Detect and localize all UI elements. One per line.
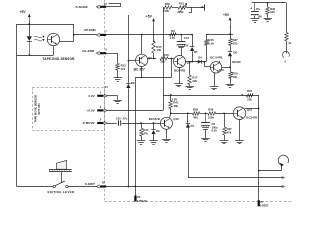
svg-text:16V: 16V: [257, 14, 262, 18]
ground R37b: [220, 141, 229, 144]
dashed box TAPE MOVE SENSOR: [33, 88, 105, 131]
svg-text:EDITING LEVER: EDITING LEVER: [48, 190, 75, 194]
label +5V (rail): [146, 15, 153, 19]
svg-text:TAPE-END-SENSOR.: TAPE-END-SENSOR.: [43, 57, 76, 61]
wire base BC327: [128, 60, 135, 62]
label S-EDIT: [85, 182, 95, 186]
capacitor C36: [251, 12, 262, 19]
resistor R37b: [223, 127, 232, 135]
diode D8: [151, 123, 160, 134]
wire D8 ground: [153, 134, 155, 140]
resistor R50 collector load: [229, 67, 238, 79]
connector hook small: [283, 51, 290, 63]
pin 18 S-EDIT: [96, 180, 106, 188]
svg-text:R51: R51: [179, 2, 185, 6]
wire output vertical: [258, 108, 260, 200]
pin 1 J1 (0.0V): [97, 90, 107, 97]
wire R17 to ground: [189, 85, 191, 87]
svg-text:25V: 25V: [184, 43, 189, 47]
svg-text:+: +: [250, 7, 252, 11]
diode D6: [228, 50, 238, 56]
svg-text:47k: 47k: [121, 67, 126, 71]
wire DL-END to R13: [106, 53, 118, 63]
label Q18: [247, 108, 253, 112]
wire +5V arrow to rail: [153, 26, 155, 36]
transistor Q18 BC547B: [233, 107, 246, 120]
ground Q8 emitter: [174, 84, 183, 87]
capacitor C8: [201, 113, 218, 132]
svg-text:R16: R16: [164, 53, 170, 57]
svg-text:47k: 47k: [227, 130, 232, 134]
wire R13 to ground: [117, 70, 119, 78]
switch S-EDIT contacts: [53, 181, 68, 188]
wire R17 branch: [189, 62, 191, 75]
svg-text:33k: 33k: [160, 60, 165, 64]
svg-text:18: 18: [102, 180, 105, 184]
wire R45 top rail corner: [206, 34, 208, 40]
wire R37b top: [224, 113, 226, 127]
wire collector node horizontal: [135, 77, 171, 79]
wire pot to terminal: [187, 6, 205, 8]
resistor R13: [116, 64, 126, 71]
wire vertical net R50a: [163, 7, 165, 110]
svg-text:C13: C13: [184, 36, 190, 40]
wire BC327 emitter-node right: [148, 58, 157, 60]
svg-text:D7: D7: [191, 124, 195, 128]
wire +5V to LED: [28, 21, 30, 37]
wire Q8 output bus: [186, 61, 207, 63]
svg-text:BC547B: BC547B: [246, 115, 257, 119]
wire output stub to connector: [259, 165, 282, 171]
ground R48: [263, 19, 272, 22]
wire arrow to rail B: [230, 25, 232, 39]
svg-text:100: 100: [270, 10, 275, 14]
diode D5: [190, 47, 198, 55]
light arrows (optocoupler): [34, 36, 45, 41]
label Q10: [219, 68, 224, 72]
svg-text:22k: 22k: [247, 98, 252, 102]
wire sensor loop top: [17, 24, 74, 26]
wire vertical net base BC327: [128, 15, 130, 83]
transistor Q7 BC327: [136, 54, 148, 66]
connector bottom dashed boundary line: [105, 201, 294, 203]
resistor R16: [160, 53, 169, 63]
wire mid rail: [163, 94, 259, 96]
pin P7 2-REST: [258, 200, 269, 208]
wire rail corner down to D5: [191, 34, 193, 47]
diode D4: [198, 56, 202, 64]
label +5.0V: [87, 109, 95, 113]
wire R41 bottom junction: [170, 109, 172, 115]
svg-text:S-EDIT: S-EDIT: [85, 182, 95, 186]
wire emitter down: [53, 46, 55, 55]
label BC 327: [134, 68, 145, 72]
wire collector branch to UP-END: [74, 34, 97, 36]
wire Q18 collector up: [258, 95, 260, 108]
wire bus to Q10 base: [204, 62, 210, 67]
diode D7: [186, 113, 195, 128]
resistor R37a 22k in rail: [247, 89, 254, 102]
svg-text:15k: 15k: [156, 48, 161, 52]
ground Q18 emitter: [235, 141, 244, 144]
supply arrow +5V sensor: [28, 14, 31, 21]
editing lever cam: [56, 160, 66, 169]
svg-text:400: 400: [193, 115, 198, 119]
svg-text:4.7k: 4.7k: [170, 36, 176, 40]
wire +5.0V row: [107, 110, 163, 112]
svg-text:TAPE MOVE SENSOR: TAPE MOVE SENSOR: [33, 95, 37, 123]
svg-text:1N4148: 1N4148: [232, 61, 241, 64]
ground R13: [114, 78, 123, 82]
label Q16: [173, 117, 179, 121]
svg-text:P7: P7: [260, 200, 264, 204]
pin 7 UP-END: [96, 30, 107, 37]
wire MOVE row to C10: [107, 123, 117, 125]
wire R15 top to rail: [153, 35, 155, 42]
editing lever stem: [61, 172, 63, 183]
svg-text:46k: 46k: [173, 104, 178, 108]
wire base line y113: [171, 112, 193, 114]
svg-text:47u: 47u: [123, 117, 128, 121]
wire Q16 collector: [170, 113, 171, 118]
resistor R48: [266, 3, 276, 15]
wire Q16 emitter: [166, 129, 168, 139]
ground Q16 emitter: [162, 140, 171, 143]
label Q8: [187, 61, 191, 65]
wire R15 bottom: [153, 53, 155, 58]
resistor R17: [188, 75, 198, 84]
wire Q8 emitter: [179, 67, 181, 83]
label TAPE MOVE SENSOR rotated: [33, 95, 40, 123]
wire C10 to node: [122, 122, 142, 124]
svg-text:22k: 22k: [192, 79, 197, 83]
svg-text:100k: 100k: [208, 115, 215, 119]
supply arrow +5V rail: [152, 18, 155, 26]
label 2.8V: [172, 97, 178, 101]
supply arrow +5V right: [229, 17, 232, 25]
wire R41 top: [170, 95, 172, 101]
wire wiper loop: [189, 7, 192, 13]
svg-text:47u: 47u: [256, 7, 261, 11]
ground D8: [149, 141, 158, 145]
svg-text:Q16: Q16: [173, 117, 179, 121]
wire R48 ground: [267, 14, 269, 17]
pin 6 DL-END: [96, 48, 107, 55]
ground C8: [201, 139, 210, 142]
svg-text:BC 547B: BC 547B: [210, 56, 222, 60]
diode D9: [126, 81, 135, 88]
svg-text:D6: D6: [233, 50, 237, 54]
resistor R44: [140, 123, 149, 136]
capacitor C36 branch: [250, 3, 260, 12]
svg-text:0.0V: 0.0V: [88, 94, 94, 98]
wire R37b ground: [224, 135, 226, 140]
transistor Q10 BC547B: [210, 62, 221, 73]
svg-text:D4: D4: [198, 56, 202, 60]
svg-text:KITT-321: KITT-321: [37, 103, 41, 115]
ground 0.0V: [113, 101, 122, 104]
svg-text:UP-END: UP-END: [84, 28, 97, 32]
pin 3 J1 (+5.0V): [97, 105, 107, 112]
label Q7: [148, 56, 152, 60]
wire edit line left: [17, 186, 53, 188]
svg-text:DL-END: DL-END: [83, 49, 95, 53]
wire switch to pin18: [68, 186, 97, 188]
resistor R6: [170, 29, 177, 40]
capacitor C13: [177, 34, 190, 48]
wire BC327 top to rail: [141, 34, 143, 55]
svg-text:2-REST: 2-REST: [260, 205, 269, 208]
wire D8 node to Q16 base: [154, 123, 161, 125]
label DL-END: [83, 49, 95, 53]
wire edit line right: [106, 185, 284, 188]
wire 0.0V to ground: [107, 96, 118, 100]
resistor R39: [193, 108, 200, 120]
label BC547B Q16: [149, 117, 160, 121]
wire sensor loop left vertical: [16, 24, 18, 187]
svg-text:100: 100: [232, 75, 237, 79]
wire collector to corner: [60, 24, 75, 42]
trimmer R51: [177, 2, 187, 15]
wire S-SLIDE: [106, 3, 120, 7]
LED D (tape-end sensor emitter): [27, 36, 32, 55]
pin 5 J1 (P-MOVE): [97, 118, 107, 125]
label EDITING LEVER: [48, 190, 75, 194]
svg-text:D8: D8: [156, 129, 160, 133]
phototransistor Q (tape-end sensor): [47, 33, 59, 45]
svg-text:S-SLIDE: S-SLIDE: [76, 5, 88, 9]
wire sensor loop bottom: [17, 54, 54, 56]
svg-text:BC547B: BC547B: [149, 117, 160, 121]
wire BC327 collector down: [141, 66, 143, 78]
svg-text:Q7: Q7: [148, 56, 152, 60]
wire C8 ground: [205, 129, 207, 138]
resistor R52 right vertical: [285, 33, 292, 46]
wire feedback horizontal: [188, 176, 285, 179]
svg-text:R39: R39: [193, 108, 199, 112]
svg-text:R50: R50: [165, 2, 171, 6]
label TAPE-END-SENSOR: [43, 57, 76, 61]
wire Q10 collector: [220, 61, 231, 68]
svg-text:100: 100: [233, 41, 238, 45]
svg-text:D9: D9: [131, 81, 135, 85]
wire +5V rail segment A: [106, 34, 192, 36]
svg-text:R36: R36: [208, 108, 214, 112]
label +5V (right): [223, 13, 230, 17]
svg-text:15: 15: [104, 2, 107, 6]
svg-text:+5V: +5V: [20, 10, 27, 14]
wire Q10 emitter: [214, 72, 216, 86]
wire collector node to edit line: [134, 77, 136, 187]
svg-text:R37: R37: [247, 89, 253, 93]
transistor Q16 BC547B: [160, 117, 172, 129]
ground C36: [251, 19, 260, 23]
svg-text:6.3V: 6.3V: [212, 128, 218, 132]
wire node to D8 node: [141, 122, 154, 124]
ground Q10 emitter: [210, 87, 219, 90]
svg-text:Q10: Q10: [219, 68, 224, 72]
resistor R50 top: [163, 2, 172, 13]
label S-SLIDE: [76, 5, 88, 9]
wire R50 to ground: [230, 78, 232, 84]
capacitor C10: [116, 117, 128, 126]
pin 15 S-SLIDE: [96, 2, 107, 9]
svg-text:+5.0V: +5.0V: [87, 109, 95, 113]
wire top-right bus: [252, 2, 286, 4]
resistor R41: [169, 100, 179, 108]
svg-text:+5V: +5V: [223, 13, 230, 17]
label J1: [105, 85, 109, 89]
pin P2 2-TREAD: [134, 187, 147, 203]
svg-text:R6: R6: [171, 29, 175, 33]
transistor Q8 BC547B: [174, 56, 186, 68]
wire R52 down: [286, 41, 288, 54]
resistor R45: [205, 38, 215, 45]
label UP-END: [84, 28, 97, 32]
wire R50-R51: [172, 7, 178, 9]
svg-text:5.2k: 5.2k: [208, 42, 214, 46]
wire R16 to base junction: [168, 58, 174, 60]
wire Q18 emitter: [239, 120, 241, 141]
svg-text:47k: 47k: [143, 131, 148, 135]
wire R47 to D6: [230, 45, 232, 51]
wire R45 bottom to bus: [206, 45, 208, 61]
resistor R47: [229, 38, 238, 45]
wire C36 ground: [254, 16, 256, 19]
resistor R15: [152, 40, 162, 53]
editing lever hatched base: [49, 169, 72, 172]
svg-text:+5V: +5V: [146, 15, 153, 19]
connector hook symbol: [278, 155, 288, 167]
label BC547B Q18: [246, 115, 257, 119]
wire C13 to Q8 collector: [181, 48, 183, 56]
label BC547B Q8: [174, 69, 185, 73]
label 0.0V: [88, 94, 94, 98]
wire R44 ground: [141, 136, 143, 140]
svg-text:P2: P2: [137, 195, 141, 199]
wire R39-R36: [200, 112, 208, 114]
wire D9 down to edit line: [128, 88, 130, 187]
svg-text:2-TREAD: 2-TREAD: [137, 200, 148, 203]
svg-text:BC 327: BC 327: [134, 68, 145, 72]
wire D6 to collector node: [229, 56, 241, 68]
wire D5 to bus: [191, 51, 193, 62]
connector J dashed boundary line: [104, 0, 106, 202]
ground R50: [226, 85, 235, 88]
wire D7 feedback down: [188, 128, 190, 178]
ground R44: [137, 141, 146, 145]
wire R36 to Q18 base: [216, 112, 234, 114]
svg-text:J1: J1: [105, 85, 109, 89]
ground R17: [186, 87, 195, 90]
wire Q18 collector: [245, 108, 260, 110]
label +5V (sensor supply): [20, 10, 27, 14]
label P-MOVE: [83, 121, 95, 125]
svg-text:P-MOVE: P-MOVE: [83, 121, 95, 125]
svg-text:D5: D5: [194, 50, 198, 54]
resistor R36: [208, 108, 216, 120]
wire +5V rail segment B: [206, 33, 233, 35]
svg-text:470k: 470k: [163, 9, 170, 13]
wire bus corner down: [286, 3, 288, 33]
svg-text:C10: C10: [116, 117, 121, 121]
terminal bar: [204, 4, 206, 10]
wire node up to Q8 base junction: [171, 59, 173, 78]
label BC 547B Q10: [210, 56, 222, 60]
